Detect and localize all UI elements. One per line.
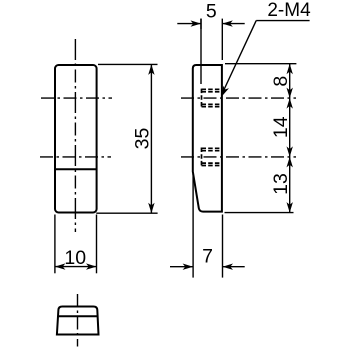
- svg-text:5: 5: [206, 1, 217, 23]
- dim 7 arrow at left ext: [183, 264, 194, 270]
- dim 8 arrow up at top: [287, 64, 293, 74]
- dim chain line 8-14-13: [289, 64, 291, 213]
- dim 35 arrow down: [148, 203, 154, 214]
- dim 7 right tail: [223, 266, 245, 268]
- label 2-M4 leader arrow: [219, 86, 229, 98]
- label 2-M4 leader horizontal: [256, 20, 309, 22]
- dim 7 extension right: [222, 215, 224, 278]
- dim 10 extension right: [96, 215, 98, 274]
- dim 5 arrow at right ext: [222, 20, 233, 26]
- svg-text:13: 13: [270, 173, 292, 195]
- dim 8/14 arrows at hole1 centerline: [287, 88, 293, 99]
- dim 35 extension top: [98, 63, 158, 65]
- front view hole2 centerline: [40, 156, 111, 158]
- right chain extension top edge: [225, 63, 296, 65]
- dim 7 extension left: [192, 174, 194, 278]
- bottom view inner edge: [58, 315, 98, 317]
- label 2-M4 leader diagonal: [222, 21, 256, 94]
- hole 1 thread (hidden): [202, 89, 223, 108]
- dim 35 extension bottom: [96, 212, 157, 214]
- dim 35 line: [150, 64, 152, 213]
- svg-text:10: 10: [64, 247, 86, 269]
- side view top step edge / thread depth line: [200, 19, 202, 84]
- front view hole1 centerline: [41, 97, 112, 99]
- dim 5 extension right: [221, 19, 223, 60]
- dim 5 left tail: [177, 23, 201, 25]
- dim 35 arrow up: [148, 64, 154, 75]
- dim 5 arrow at left ext: [191, 20, 202, 26]
- dim 7 left tail: [170, 266, 193, 268]
- dim 10 line: [55, 266, 97, 268]
- front view vertical centerline: [74, 39, 76, 232]
- svg-text:14: 14: [270, 116, 292, 138]
- svg-text:7: 7: [202, 245, 213, 267]
- dim 10 arrow right: [86, 263, 97, 269]
- dim 10 arrow left: [55, 263, 66, 269]
- side view outline: [193, 65, 222, 212]
- front view taper edge: [55, 168, 97, 170]
- dim 10 extension left: [54, 215, 56, 274]
- dim 13 arrow down at bottom: [287, 202, 293, 213]
- right chain extension bottom edge: [225, 212, 294, 214]
- dim 14/13 arrows at hole2 centerline: [287, 146, 293, 157]
- bottom view centerline: [77, 294, 79, 347]
- dim 5 extension left: [200, 19, 202, 29]
- hole 2 thread (hidden): [202, 148, 223, 167]
- front view outline: [55, 65, 97, 213]
- svg-text:2-M4: 2-M4: [267, 0, 311, 21]
- svg-text:35: 35: [131, 128, 153, 150]
- dim 7 arrow at right ext: [223, 264, 234, 270]
- dim 5 right tail: [222, 23, 244, 25]
- hole 2 centerline: [181, 156, 296, 158]
- hole 1 centerline: [181, 97, 296, 99]
- bottom view outline: [57, 307, 99, 335]
- svg-text:8: 8: [270, 76, 292, 87]
